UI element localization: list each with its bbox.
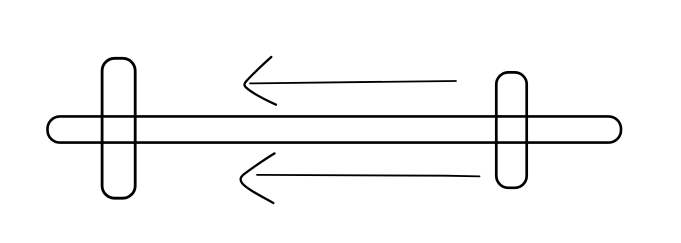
left wheel (tall vertical rounded rectangle) bbox=[102, 58, 135, 198]
axle rod (long horizontal rounded rectangle) bbox=[48, 116, 622, 142]
top arrow head (open chevron) bbox=[244, 57, 276, 105]
bottom arrow head (open chevron) bbox=[241, 153, 275, 203]
top arrow shaft (pointing left) bbox=[250, 81, 456, 83]
bottom arrow shaft (pointing left) bbox=[257, 175, 480, 177]
right wheel (shorter vertical rounded rectangle) bbox=[496, 72, 526, 187]
